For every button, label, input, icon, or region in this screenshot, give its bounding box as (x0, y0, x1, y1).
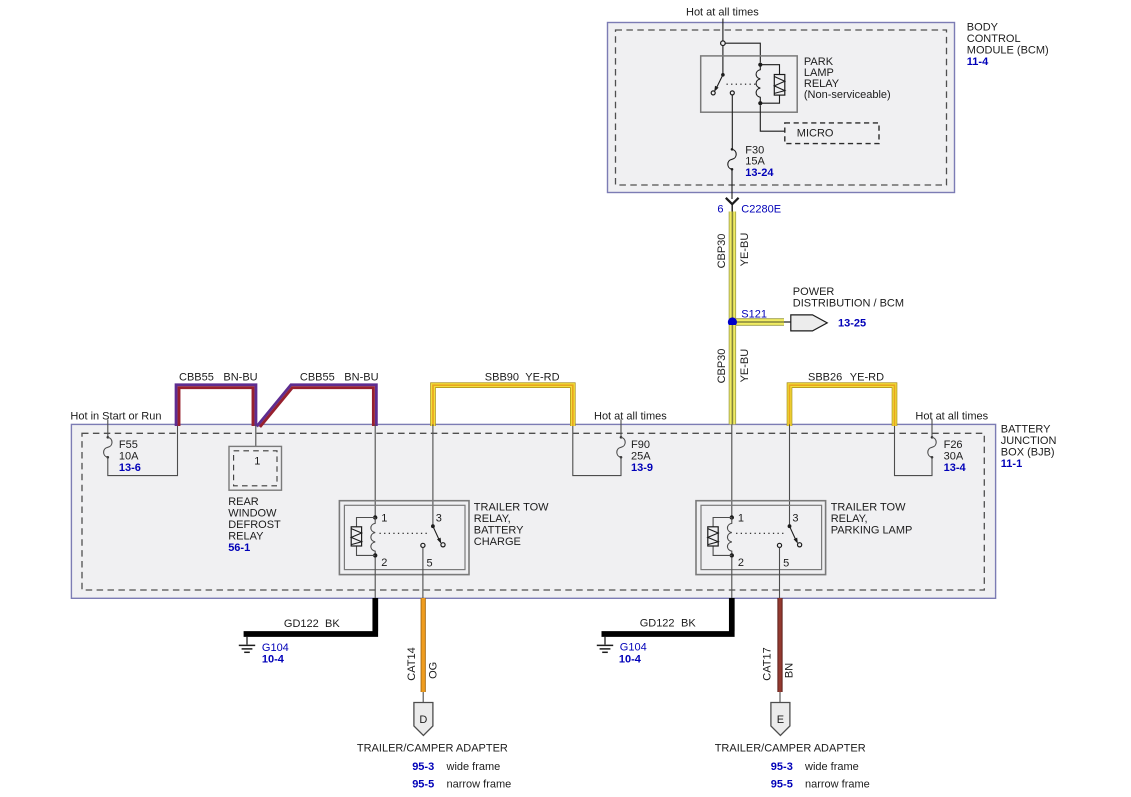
svg-text:RELAY,: RELAY, (474, 513, 511, 525)
wire: CBB55 loop 2 to relay pin 1 (374, 424, 376, 516)
wire: TT1 pin 2 to box bottom (374, 558, 376, 598)
svg-text:11-4: 11-4 (967, 56, 989, 68)
svg-text:RELAY,: RELAY, (831, 513, 868, 525)
TT1 coil (371, 518, 375, 556)
svg-text:CBP30: CBP30 (716, 349, 728, 384)
svg-text:6: 6 (717, 204, 723, 216)
TT2 resistor (713, 518, 732, 556)
wire: brown lead to connector E (779, 692, 781, 703)
svg-text:BN: BN (784, 663, 796, 678)
fuse F26 (931, 436, 934, 439)
wire: TT1 pin 5 to box bottom (422, 548, 424, 599)
wire CAT17 BN (brown) (777, 598, 782, 692)
svg-text:YE-BU: YE-BU (739, 349, 751, 383)
svg-text:narrow frame: narrow frame (805, 779, 870, 791)
relay switch blade (716, 75, 723, 90)
svg-text:95-5: 95-5 (412, 779, 434, 791)
svg-text:TRAILER TOW: TRAILER TOW (831, 501, 906, 513)
TT2 actuation dotted line (736, 532, 785, 534)
svg-text:BOX (BJB): BOX (BJB) (1001, 446, 1055, 458)
svg-text:Hot at all times: Hot at all times (594, 410, 667, 422)
svg-text:2: 2 (381, 557, 387, 569)
svg-text:25A: 25A (631, 450, 651, 462)
wire: junction to relay switch pivot (722, 46, 724, 74)
svg-text:BATTERY: BATTERY (474, 524, 524, 536)
park lamp relay box (701, 56, 798, 112)
svg-text:CAT14: CAT14 (406, 647, 418, 680)
BJB inner dashed border (82, 433, 984, 590)
svg-text:13-25: 13-25 (838, 318, 866, 330)
svg-text:CAT17: CAT17 (762, 647, 774, 680)
wire: loop 1 to defrost relay (255, 424, 257, 446)
svg-text:CBB55: CBB55 (179, 371, 214, 383)
svg-text:5: 5 (783, 557, 789, 569)
svg-text:E: E (777, 714, 784, 726)
fuse F30 (731, 148, 734, 151)
wire: orange lead to connector D (422, 692, 424, 703)
trailer tow relay parking lamp box (696, 501, 826, 575)
wire GD122 BK (left ground wire) (244, 598, 379, 634)
TT2 pin 2 dot (730, 553, 734, 557)
TT1 switch pivot dot (431, 524, 435, 528)
svg-text:1: 1 (254, 456, 260, 468)
wire: CBP30 to parking relay pin 1 (731, 424, 733, 516)
wire: hot feed to F26 (931, 420, 933, 437)
wire SBB26 YE-RD loop (790, 385, 895, 426)
svg-text:95-3: 95-3 (771, 761, 793, 773)
svg-text:Hot at all times: Hot at all times (915, 410, 988, 422)
connector C2280E arrow (726, 198, 739, 204)
svg-text:30A: 30A (944, 450, 964, 462)
svg-text:wide frame: wide frame (804, 761, 859, 773)
fuse F90 (620, 436, 623, 439)
svg-text:REAR: REAR (228, 496, 259, 508)
svg-text:CBP30: CBP30 (716, 234, 728, 269)
svg-text:13-9: 13-9 (631, 462, 653, 474)
trailer tow relay battery charge box (339, 501, 469, 575)
svg-text:F55: F55 (119, 439, 138, 451)
svg-text:WINDOW: WINDOW (228, 507, 277, 519)
wire CBP30 YE-BU (upper segment) (729, 212, 736, 320)
wire: junction to relay coil pin (725, 43, 760, 62)
wire: F90 to SBB90 riser (573, 424, 621, 475)
svg-text:3: 3 (792, 513, 798, 525)
wire: TT2 pin 2 to box bottom (731, 558, 733, 598)
fuse F55 (107, 436, 110, 439)
svg-text:OG: OG (428, 662, 440, 679)
svg-text:MICRO: MICRO (797, 128, 834, 140)
svg-text:(Non-serviceable): (Non-serviceable) (804, 89, 891, 101)
svg-text:G104: G104 (620, 642, 647, 654)
relay output contact circle (730, 91, 734, 95)
wire: SBB90 to relay pin 3 (432, 424, 434, 524)
TT2 pin 1 dot (730, 515, 734, 519)
node: BCM internal junction (721, 41, 726, 46)
svg-text:10A: 10A (119, 450, 139, 462)
wire SBB90 YE-RD loop (433, 385, 573, 426)
connector E (771, 703, 790, 736)
svg-text:YE-BU: YE-BU (739, 233, 751, 267)
svg-text:C2280E: C2280E (741, 204, 781, 216)
relay coil bottom pin dot (758, 101, 762, 105)
TT1 pin 2 dot (373, 553, 377, 557)
TT2 switch contact circle (798, 543, 802, 547)
TT2 coil (727, 518, 731, 556)
wire: F26 to SBB26 riser (895, 424, 933, 475)
wire: hot feed to F55 (107, 420, 109, 437)
svg-text:JUNCTION: JUNCTION (1001, 435, 1057, 447)
svg-text:95-5: 95-5 (771, 779, 793, 791)
svg-text:F90: F90 (631, 439, 650, 451)
relay resistor R (suppression) (760, 65, 779, 104)
TT2 pin 5 contact circle (777, 543, 781, 547)
TT1 switch contact circle (441, 543, 445, 547)
relay switch pivot (721, 73, 725, 77)
svg-text:BK: BK (325, 618, 340, 630)
BJB box (71, 424, 995, 598)
svg-text:wide frame: wide frame (446, 761, 501, 773)
svg-text:1: 1 (381, 513, 387, 525)
wire GD122 BK (right ground wire) (602, 598, 735, 634)
BCM inner dashed border (616, 30, 947, 185)
svg-text:GD122: GD122 (640, 618, 675, 630)
svg-text:D: D (419, 714, 427, 726)
MICRO box (785, 123, 879, 144)
svg-text:13-24: 13-24 (745, 167, 774, 179)
wire: SBB26 to relay pin 3 (789, 424, 791, 524)
svg-text:G104: G104 (262, 642, 289, 654)
svg-text:YE-RD: YE-RD (850, 371, 884, 383)
svg-text:15A: 15A (745, 155, 765, 167)
svg-text:11-1: 11-1 (1001, 458, 1022, 470)
wire: coil to MICRO (760, 105, 785, 131)
svg-text:TRAILER TOW: TRAILER TOW (474, 501, 549, 513)
svg-text:5: 5 (427, 557, 433, 569)
svg-text:13-6: 13-6 (119, 462, 141, 474)
relay switch contact circle (711, 91, 715, 95)
relay coil top pin dot (758, 63, 762, 67)
wire: F55 to CBB55 riser (108, 424, 178, 475)
TT1 actuation dotted line (380, 532, 429, 534)
svg-text:Hot at all times: Hot at all times (686, 6, 759, 18)
svg-text:BATTERY: BATTERY (1001, 423, 1051, 435)
svg-text:DEFROST: DEFROST (228, 519, 281, 531)
wire: hot feed to F90 (620, 420, 622, 437)
wire CBB55 BN-BU loop 2 (with diagonal) (257, 385, 377, 427)
svg-text:CONTROL: CONTROL (967, 33, 1021, 45)
svg-text:RELAY: RELAY (228, 530, 264, 542)
svg-text:1: 1 (738, 513, 744, 525)
TT1 pin 1 dot (373, 515, 377, 519)
svg-text:SBB26: SBB26 (808, 371, 842, 383)
svg-text:CHARGE: CHARGE (474, 536, 521, 548)
svg-text:BODY: BODY (967, 21, 999, 33)
wire CBB55 BN-BU loop 1 (176, 385, 256, 426)
svg-text:SBB90: SBB90 (485, 371, 519, 383)
svg-text:95-3: 95-3 (412, 761, 434, 773)
svg-text:56-1: 56-1 (228, 542, 250, 554)
wire: switch output to fuse F30 (731, 95, 733, 148)
ground G104 (left) (239, 637, 255, 653)
svg-text:BK: BK (681, 618, 696, 630)
relay actuation dotted line (727, 83, 758, 85)
wire: TT2 pin 5 to box bottom (779, 548, 781, 599)
rear window defrost relay box (229, 446, 282, 490)
svg-text:10-4: 10-4 (619, 653, 642, 665)
TT2 switch blade (790, 526, 797, 541)
svg-text:13-4: 13-4 (944, 462, 967, 474)
connector: power distribution arrow (791, 315, 827, 331)
svg-text:narrow frame: narrow frame (447, 779, 512, 791)
svg-text:3: 3 (436, 513, 442, 525)
wire: splice branch to power distribution (736, 318, 791, 325)
TT1 switch blade (433, 526, 440, 541)
svg-text:POWER: POWER (793, 286, 835, 298)
BCM module box (608, 23, 955, 193)
relay coil (756, 65, 760, 104)
svg-text:YE-RD: YE-RD (525, 371, 559, 383)
svg-text:DISTRIBUTION / BCM: DISTRIBUTION / BCM (793, 298, 904, 310)
wire: hot feed into BCM (722, 19, 724, 42)
splice S121 (728, 317, 737, 326)
svg-text:BN-BU: BN-BU (223, 371, 257, 383)
svg-text:GD122: GD122 (284, 618, 319, 630)
svg-text:F26: F26 (944, 439, 963, 451)
svg-text:CBB55: CBB55 (300, 371, 335, 383)
svg-text:2: 2 (738, 557, 744, 569)
svg-text:MODULE (BCM): MODULE (BCM) (967, 44, 1049, 56)
svg-text:S121: S121 (741, 308, 767, 320)
svg-text:10-4: 10-4 (262, 654, 285, 666)
ground G104 (right) (597, 637, 613, 653)
TT2 switch pivot dot (788, 524, 792, 528)
connector D (414, 703, 433, 736)
svg-text:TRAILER/CAMPER ADAPTER: TRAILER/CAMPER ADAPTER (715, 742, 866, 754)
svg-text:BN-BU: BN-BU (344, 371, 378, 383)
svg-text:TRAILER/CAMPER ADAPTER: TRAILER/CAMPER ADAPTER (357, 742, 508, 754)
wire CBP30 YE-BU (lower segment) (729, 325, 736, 424)
TT1 resistor (357, 518, 376, 556)
wire: F30 to connector C2280E (731, 169, 733, 199)
svg-text:Hot in Start or Run: Hot in Start or Run (70, 410, 161, 422)
wire CAT14 OG (orange) (421, 598, 426, 692)
TT1 pin 5 contact circle (421, 543, 425, 547)
svg-text:PARKING LAMP: PARKING LAMP (831, 524, 913, 536)
